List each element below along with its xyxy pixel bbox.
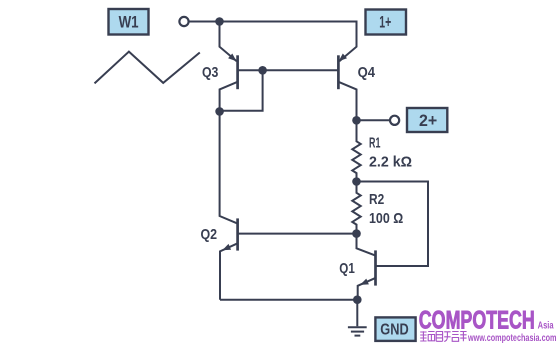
- svg-text:Q2: Q2: [201, 227, 218, 243]
- svg-text:GND: GND: [380, 322, 408, 339]
- svg-text:1+: 1+: [379, 13, 391, 32]
- svg-text:Q3: Q3: [202, 65, 218, 81]
- svg-text:2+: 2+: [419, 111, 437, 130]
- svg-text:W1: W1: [119, 13, 139, 32]
- svg-text:2.2 kΩ: 2.2 kΩ: [369, 155, 412, 171]
- svg-text:www.compotechasia.com: www.compotechasia.com: [467, 332, 556, 344]
- svg-text:COMPOTECH: COMPOTECH: [419, 307, 535, 335]
- svg-text:R2: R2: [369, 192, 384, 208]
- svg-text:R1: R1: [369, 136, 380, 152]
- svg-text:100 Ω: 100 Ω: [369, 211, 403, 227]
- svg-text:Asia: Asia: [538, 319, 554, 331]
- svg-text:Q1: Q1: [339, 261, 355, 277]
- svg-text:Q4: Q4: [358, 65, 376, 81]
